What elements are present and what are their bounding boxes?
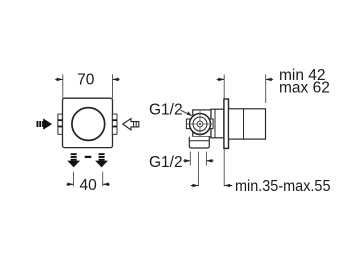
G1/2 dimension right arrow xyxy=(206,159,213,163)
min42 dimension left arrow xyxy=(217,78,225,82)
min.35-max.55 left arrow xyxy=(191,184,199,188)
min42 wall extension line up xyxy=(223,74,225,98)
outlet center extension line xyxy=(197,152,199,187)
handle circle xyxy=(72,108,105,141)
adapter divider line xyxy=(214,109,216,138)
left inlet fitting xyxy=(58,114,62,134)
svg-text:max 62: max 62 xyxy=(279,79,330,96)
knob crosshair horizontal xyxy=(187,123,213,125)
svg-text:70: 70 xyxy=(77,71,95,88)
adapter between housing and flange xyxy=(211,109,224,138)
knob center dot xyxy=(199,123,201,125)
svg-text:min.35-max.55: min.35-max.55 xyxy=(235,178,331,195)
cylinder divider line xyxy=(243,109,245,139)
min.35-max.55 right arrow xyxy=(224,184,232,188)
dimension 40 extension line left xyxy=(73,172,75,187)
dimension 70 extension line right xyxy=(112,74,114,98)
wall flange plate xyxy=(224,99,229,148)
knob outer circle xyxy=(190,114,211,135)
outlet arrow bottom-left (down) xyxy=(67,153,80,167)
outlet extension line left xyxy=(189,152,191,166)
dimension 40 extension line right xyxy=(102,172,104,187)
min42 dimension right arrow xyxy=(266,78,273,82)
valve housing (behind knob) xyxy=(193,110,211,137)
left packing tab xyxy=(186,119,190,129)
G1/2 dimension left arrow xyxy=(183,159,190,163)
right inlet fitting xyxy=(112,114,117,134)
knob crosshair vertical xyxy=(199,111,201,137)
leader from G1/2 to handle xyxy=(181,110,193,116)
bottom outlet pipe xyxy=(189,137,209,148)
svg-text:G1/2: G1/2 xyxy=(149,154,183,171)
outlet extension line right xyxy=(205,152,207,166)
svg-text:40: 40 xyxy=(79,177,97,194)
mixer body front square xyxy=(63,98,113,147)
concealed cylinder body xyxy=(229,109,266,139)
dimension 70 extension line left xyxy=(62,74,64,98)
cold water inlet arrow (outline, pointing left) xyxy=(123,119,139,130)
dimension 40 right arrow xyxy=(103,183,110,187)
right packing tab xyxy=(210,119,213,129)
dimension 70 right arrow xyxy=(113,78,120,82)
wall face extension line down xyxy=(223,149,225,187)
dimension 70 left arrow xyxy=(55,78,63,82)
knob hub circle xyxy=(197,121,203,127)
dimension 40 left arrow xyxy=(66,183,73,187)
knob inner ring xyxy=(193,117,207,131)
outlet arrow bottom-right (down) xyxy=(95,153,108,167)
hot water inlet arrow (solid, pointing right) xyxy=(37,118,53,129)
min42 cylinder-end extension line xyxy=(265,74,267,103)
svg-text:G1/2: G1/2 xyxy=(149,102,183,119)
dash between outlet arrows xyxy=(85,156,92,158)
